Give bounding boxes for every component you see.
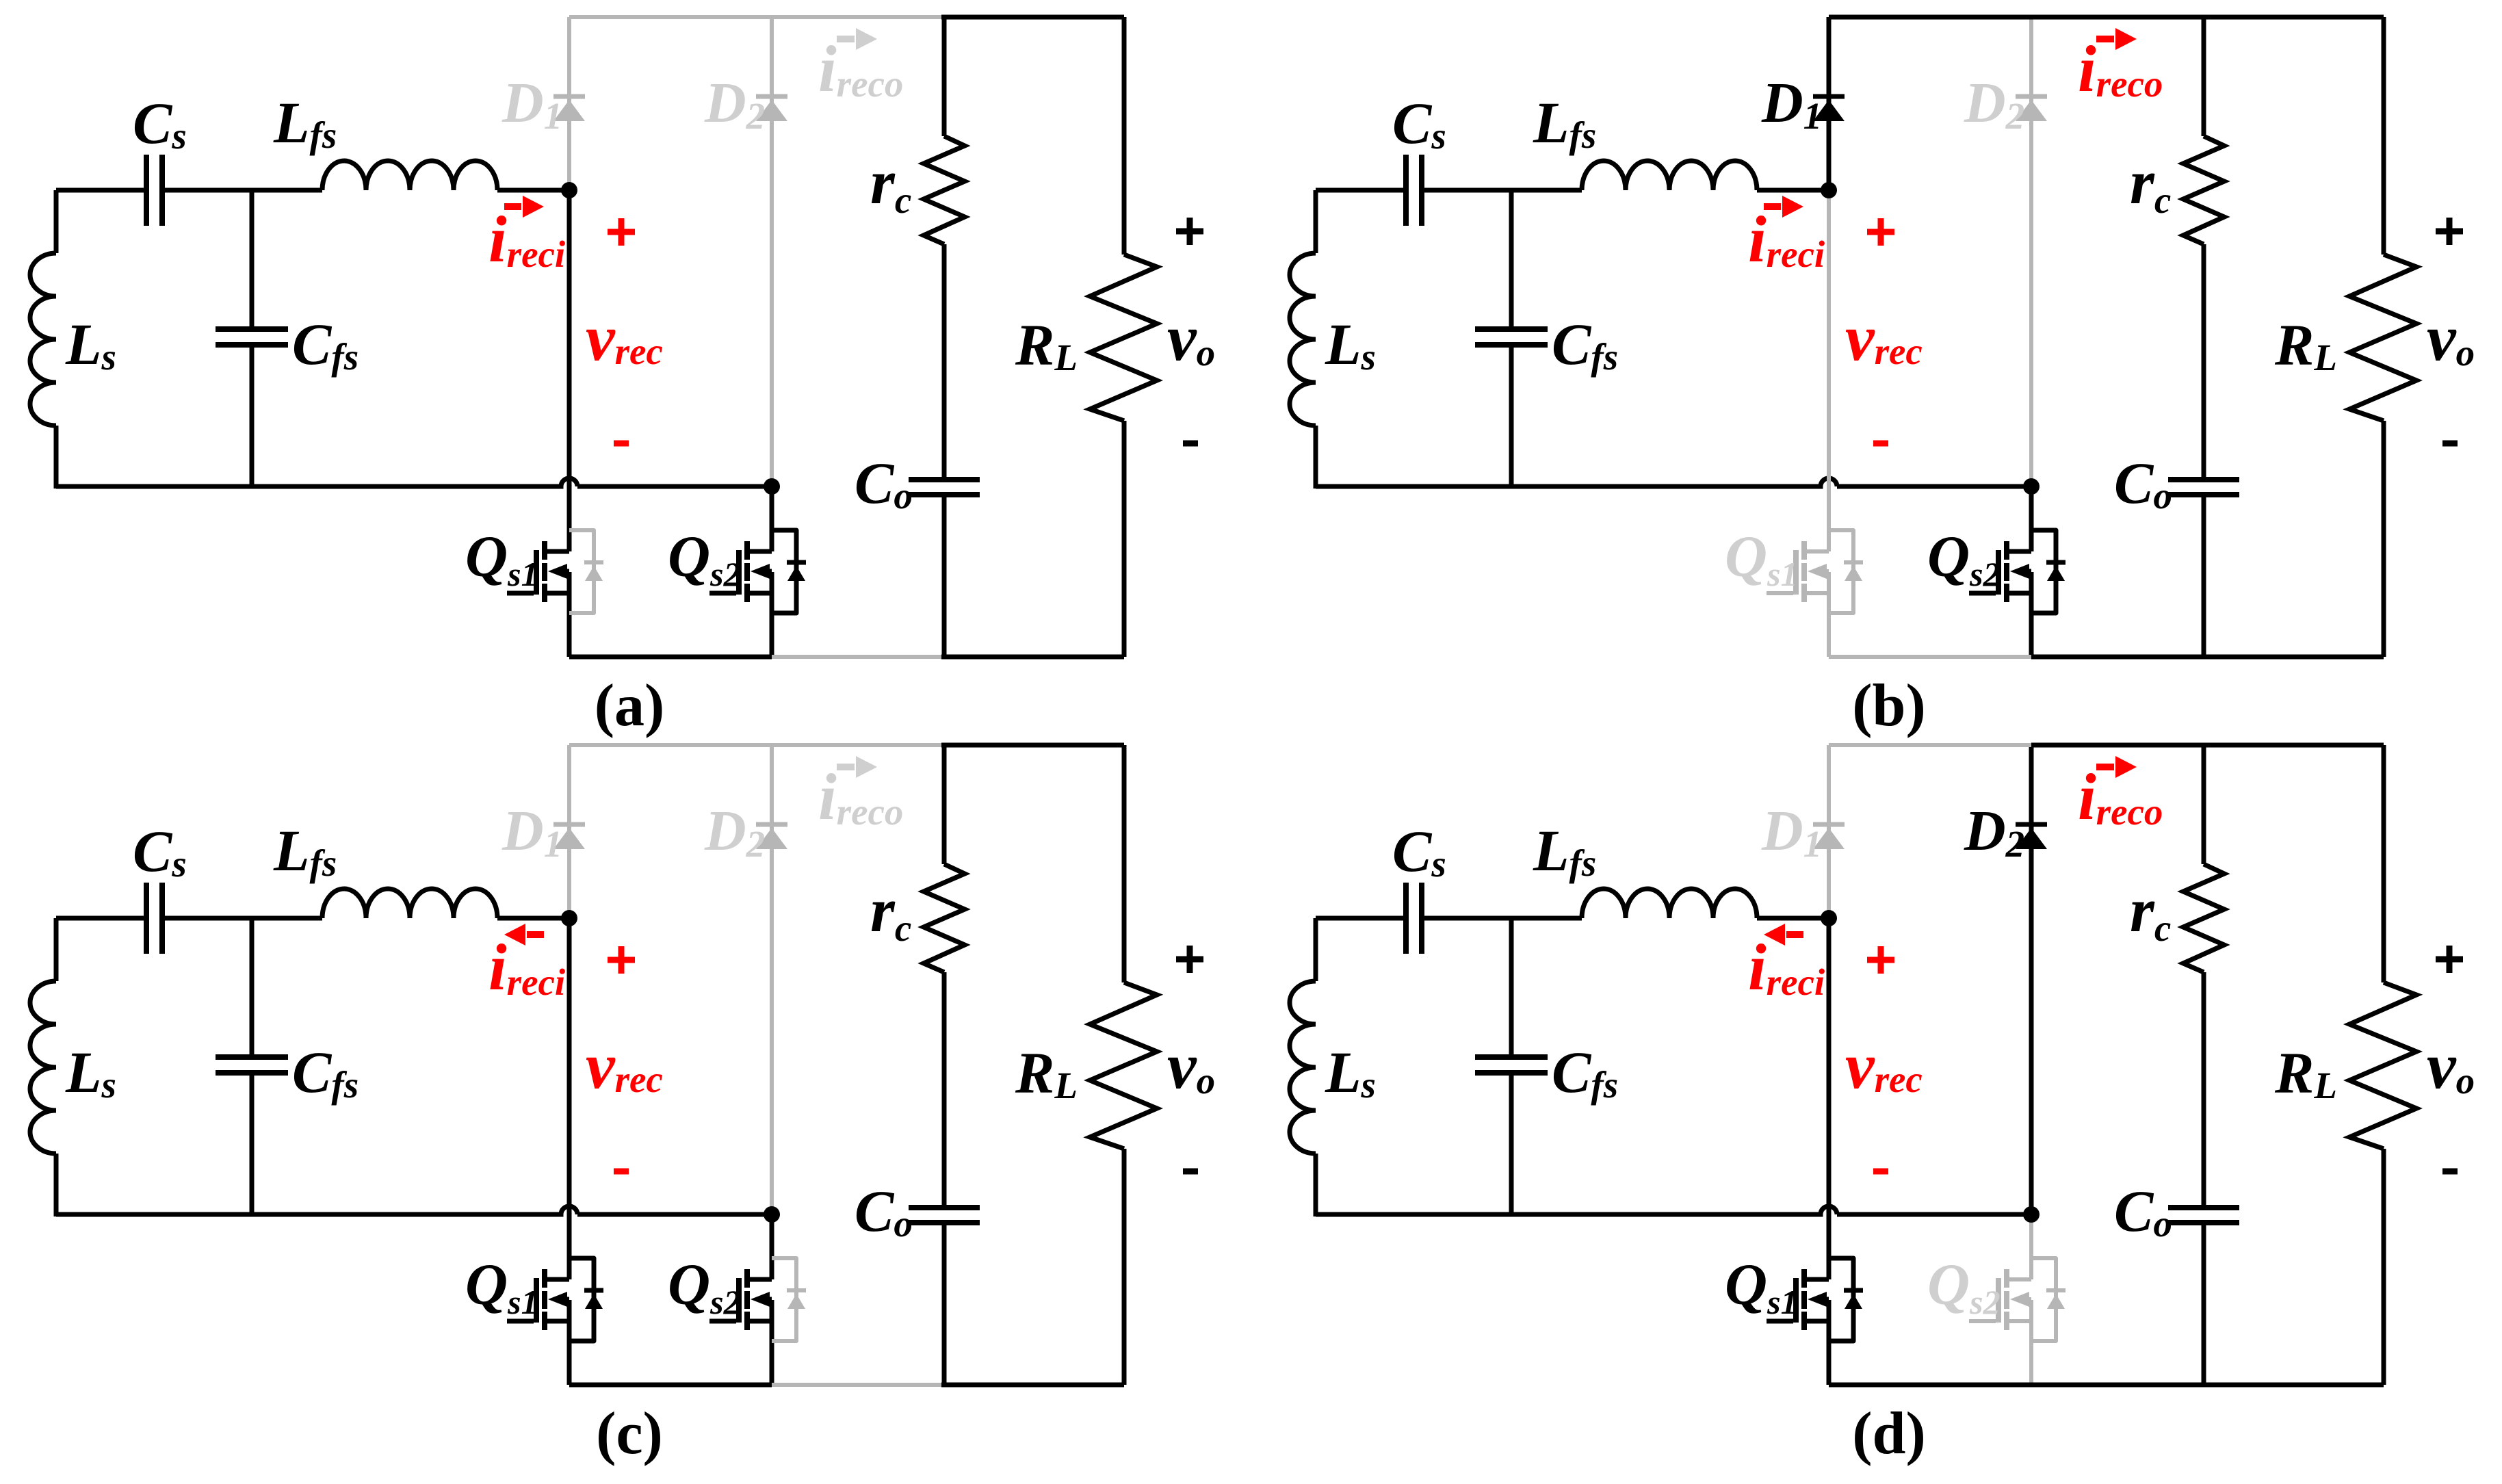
(b) wire: filter branch vertical top [2202, 17, 2206, 136]
(d) polarity + of vo [2436, 946, 2463, 973]
(c) wire: filter branch vertical top [942, 745, 947, 864]
(a) body diode of Qs1 [569, 530, 594, 613]
(d) wire: top rail (rectifier output) [1829, 743, 2031, 747]
(d) polarity - of vo [2442, 1169, 2458, 1175]
(b) node B (junction bottom wire / D2 / Qs2) [2023, 478, 2040, 495]
(a) polarity + of v_rec [608, 218, 635, 246]
(a) polarity - of v_rec [614, 441, 629, 447]
(b) wire: top rail to load [2201, 15, 2384, 20]
(a) inductor Ls [30, 253, 56, 426]
(a) transistor Qs2 [744, 541, 750, 602]
(a) diode D2 [756, 94, 787, 99]
(a) polarity + of vo [1176, 218, 1203, 245]
(d) transistor Qs1 [1801, 1269, 1807, 1330]
(c) wire: node A down to Qs1 [567, 918, 572, 1385]
svg-text:(a): (a) [595, 673, 665, 739]
(b) wire: top wire Lfs to node [1757, 188, 1829, 193]
(d) wire: output loop bottom [2201, 1383, 2384, 1388]
(b) current arrow i_reci [1764, 203, 1781, 210]
(c) current arrow i_reci [527, 931, 544, 938]
(c) wire: output loop bottom [941, 1383, 1124, 1388]
(c) inductor Lfs [322, 889, 497, 918]
(b) wire: load branch vertical top [2382, 17, 2386, 255]
svg-text:(b): (b) [1852, 673, 1926, 739]
(b) body diode of Qs1 [1829, 530, 1853, 613]
(b) wire: top wire Cs to Lfs [1424, 188, 1582, 193]
(d) diode D1 branch wire [1827, 745, 1831, 828]
(c) capacitor Co [909, 1208, 980, 1223]
(c) wire: top wire left of Cs [56, 916, 144, 921]
(b) resistor RL [2349, 255, 2416, 421]
(b) polarity + of vo [2436, 218, 2463, 245]
(a) node B (junction bottom wire / D2 / Qs2) [764, 478, 780, 495]
(c) polarity - of vo [1183, 1169, 1198, 1175]
(b) diode D2 branch wire [2029, 17, 2033, 486]
(c) wire: node B down to Qs2 [770, 1214, 774, 1385]
(b) diode D2 [2016, 94, 2047, 99]
(b) capacitor Cs [1406, 155, 1422, 226]
(d) capacitor Cfs [1475, 1057, 1548, 1073]
(a) wire: top wire left of Cs [56, 188, 144, 193]
(c) current arrow i_reco [837, 764, 855, 770]
(d) wire: load branch vertical bottom [2382, 1149, 2386, 1385]
(a) wire: left vertical (tank) [54, 190, 59, 489]
(c) wire: load branch vertical top [1122, 745, 1127, 982]
(a) diode D1 [553, 94, 585, 99]
(a) resistor rc [924, 136, 965, 244]
(b) polarity - of v_rec [1873, 441, 1888, 447]
(d) resistor RL [2349, 982, 2416, 1149]
(c) body diode of Qs2 [772, 1258, 796, 1341]
(a) diode D1 branch wire [567, 17, 571, 100]
(a) inductor Lfs [322, 161, 497, 190]
(b) diode D1 branch wire [1827, 17, 1832, 100]
(a) current arrow i_reco [837, 36, 855, 42]
(a) wire: filter branch vertical top [942, 17, 947, 136]
(d) wire: top wire Lfs to node [1757, 916, 1829, 921]
(d) capacitor Cs [1406, 883, 1422, 954]
(d) resistor rc [2183, 864, 2224, 972]
(a) wire: top rail (rectifier output) [569, 15, 944, 19]
(c) wire: filter branch vertical middle [942, 972, 947, 1205]
(d) current arrow i_reci [1786, 931, 1803, 938]
(b) wire: top rail (rectifier output) [1829, 15, 2204, 20]
(d) inductor Lfs [1582, 889, 1757, 918]
(b) wire: node B down to Qs2 [2029, 486, 2034, 657]
(a) current arrow i_reci [504, 203, 521, 210]
(b) wire: top wire left of Cs [1316, 188, 1404, 193]
(a) resistor RL [1090, 255, 1157, 421]
(c) diode D2 branch wire [770, 745, 774, 1214]
(c) wire: top wire Cs to Lfs [164, 916, 322, 921]
(a) wire: filter branch vertical middle [942, 244, 947, 477]
(d) capacitor Co [2168, 1208, 2239, 1223]
(d) wire: top wire Cs to Lfs [1424, 916, 1582, 921]
(b) body diode of Qs2 [2031, 530, 2056, 613]
(c) polarity + of vo [1176, 946, 1203, 973]
(a) capacitor Cs [146, 155, 162, 226]
(a) wire: top wire Cs to Lfs [164, 188, 322, 193]
(c) diode D1 branch wire [567, 745, 571, 828]
(c) wire: Cfs branch vertical [250, 918, 255, 1214]
(a) capacitor Cfs [216, 329, 288, 345]
(b) wire: left vertical (tank) [1314, 190, 1318, 489]
(d) wire: switch source rail [1829, 1383, 2031, 1388]
(d) wire: top wire left of Cs [1316, 916, 1404, 921]
(d) wire: node A down to Qs1 [1827, 918, 1832, 1385]
svg-text:(d): (d) [1852, 1401, 1926, 1467]
(b) diode D1 [1813, 94, 1845, 99]
(c) body diode of Qs1 [569, 1258, 594, 1341]
(c) resistor rc [924, 864, 965, 972]
(b) wire: load branch vertical bottom [2382, 421, 2386, 657]
(b) wire: Cfs branch vertical [1509, 190, 1514, 486]
(b) capacitor Co [2168, 480, 2239, 495]
(a) polarity - of vo [1183, 441, 1198, 447]
(d) wire: filter branch vertical top [2202, 745, 2206, 864]
(b) inductor Ls [1290, 253, 1316, 426]
(d) wire: load branch vertical top [2382, 745, 2386, 982]
(d) body diode of Qs2 [2031, 1258, 2056, 1341]
(d) wire: filter branch vertical bottom [2202, 1225, 2206, 1385]
(a) wire: load branch vertical bottom [1122, 421, 1127, 657]
(d) node B (junction bottom wire / D2 / Qs2) [2023, 1206, 2040, 1223]
(c) wire: top rail to load [941, 743, 1124, 748]
(a) wire: load branch vertical top [1122, 17, 1127, 255]
(c) node A (rectifier input node) [561, 910, 577, 926]
(c) wire: left vertical (tank) [54, 918, 59, 1216]
(b) wire: filter branch vertical bottom [2202, 497, 2206, 657]
(b) polarity + of v_rec [1867, 218, 1894, 246]
(a) wire: Cfs branch vertical [250, 190, 255, 486]
(d) node A (rectifier input node) [1821, 910, 1837, 926]
(d) diode D2 [2016, 822, 2047, 827]
(c) polarity - of v_rec [614, 1169, 629, 1175]
(c) diode D2 [756, 822, 787, 827]
(c) resistor RL [1090, 982, 1157, 1149]
(a) node A (rectifier input node) [561, 182, 577, 198]
(a) wire: filter branch vertical bottom [942, 497, 947, 657]
(d) wire: node B down to Qs2 [2029, 1214, 2033, 1385]
(d) diode D1 [1813, 822, 1845, 827]
(c) diode D1 [553, 822, 585, 827]
(b) inductor Lfs [1582, 161, 1757, 190]
(c) wire: top wire Lfs to node [497, 916, 569, 921]
(c) capacitor Cfs [216, 1057, 288, 1073]
(b) wire: node A down to Qs1 [1827, 190, 1831, 657]
(b) resistor rc [2183, 136, 2224, 244]
(b) polarity - of vo [2442, 441, 2458, 447]
(a) diode D2 branch wire [770, 17, 774, 486]
(d) diode D2 branch wire [2029, 745, 2034, 1214]
(b) node A (rectifier input node) [1821, 182, 1837, 198]
(a) transistor Qs1 [542, 541, 547, 602]
(d) current arrow i_reco [2096, 764, 2114, 770]
(c) wire: filter branch vertical bottom [942, 1225, 947, 1385]
(a) wire: bottom wire with hopover [56, 478, 772, 486]
(c) polarity + of v_rec [608, 946, 635, 974]
(d) wire: bottom wire with hopover [1316, 1206, 2031, 1214]
(b) wire: switch source rail [1829, 655, 2031, 659]
(b) transistor Qs1 [1801, 541, 1807, 602]
(c) node B (junction bottom wire / D2 / Qs2) [764, 1206, 780, 1223]
(a) wire: top wire Lfs to node [497, 188, 569, 193]
(a) wire: node A down to Qs1 [567, 190, 572, 657]
(c) wire: top rail (rectifier output) [569, 743, 944, 747]
(d) polarity + of v_rec [1867, 946, 1894, 974]
(c) wire: bottom wire with hopover [56, 1206, 772, 1214]
svg-text:(c): (c) [596, 1401, 663, 1467]
(d) wire: Cfs branch vertical [1509, 918, 1514, 1214]
(a) wire: switch source rail [569, 655, 772, 660]
(a) wire: output loop bottom [941, 655, 1124, 660]
(c) capacitor Cs [146, 883, 162, 954]
(b) capacitor Cfs [1475, 329, 1548, 345]
(d) wire: filter branch vertical middle [2202, 972, 2206, 1205]
(a) body diode of Qs2 [772, 530, 796, 613]
(c) transistor Qs1 [542, 1269, 547, 1330]
(a) wire: top rail to load [941, 15, 1124, 20]
(b) wire: filter branch vertical middle [2202, 244, 2206, 477]
(b) current arrow i_reco [2096, 36, 2114, 42]
(a) capacitor Co [909, 480, 980, 495]
(a) wire: node B down to Qs2 [770, 486, 774, 657]
(d) transistor Qs2 [2004, 1269, 2009, 1330]
(b) transistor Qs2 [2004, 541, 2009, 602]
(c) wire: load branch vertical bottom [1122, 1149, 1127, 1385]
(d) inductor Ls [1290, 981, 1316, 1154]
(c) inductor Ls [30, 981, 56, 1154]
(c) wire: switch source rail [569, 1383, 772, 1388]
(d) wire: top rail to load [2201, 743, 2384, 748]
(d) polarity - of v_rec [1873, 1169, 1888, 1175]
(c) transistor Qs2 [744, 1269, 750, 1330]
(b) wire: bottom wire with hopover [1316, 478, 2031, 486]
(b) wire: output loop bottom [2201, 655, 2384, 660]
(d) body diode of Qs1 [1829, 1258, 1853, 1341]
(d) wire: left vertical (tank) [1314, 918, 1318, 1216]
